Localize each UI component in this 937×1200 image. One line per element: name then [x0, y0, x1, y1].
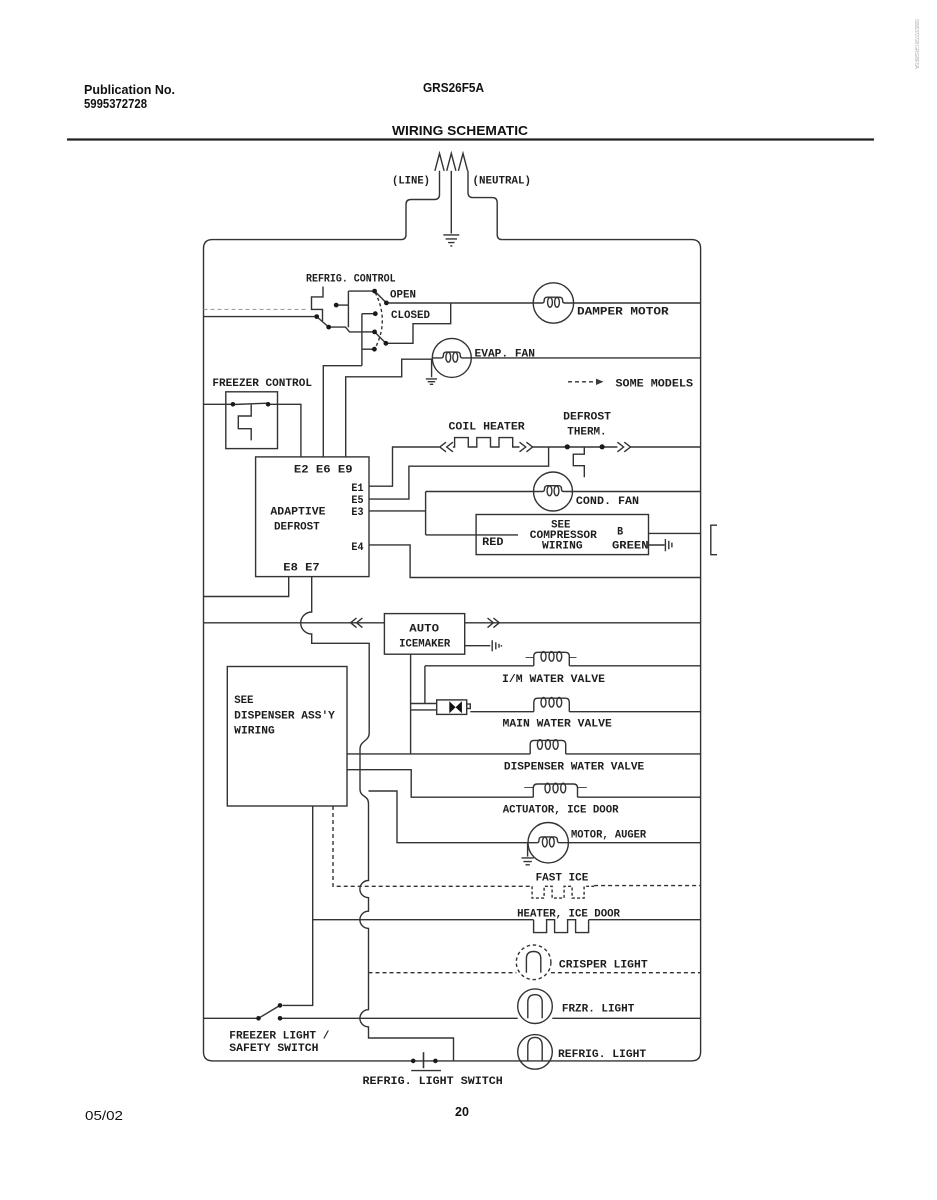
freezer safety switch dot upper — [278, 1003, 283, 1008]
freezer control output to E2 — [268, 404, 301, 457]
refrig control: bottom jog to E6 — [323, 366, 362, 457]
heater ice door line — [313, 919, 534, 921]
refrig control: vertical C/OPEN tie — [347, 291, 349, 327]
svg-text:HEATER, ICE DOOR: HEATER, ICE DOOR — [517, 909, 620, 921]
svg-text:5995372728 GRS26F5A: 5995372728 GRS26F5A — [913, 19, 919, 69]
svg-text:I/M WATER VALVE: I/M WATER VALVE — [502, 674, 605, 686]
crisper dashed line right — [551, 972, 701, 974]
evap fan circle — [432, 338, 471, 377]
heater line to defrost therm — [533, 446, 618, 448]
supply bump left (LINE drop) — [401, 171, 440, 240]
freezer switch riser from dispenser box — [283, 806, 313, 1005]
svg-text:THERM.: THERM. — [567, 427, 606, 439]
refrig control contact I — [372, 347, 377, 352]
wire E4 to bottom compressor run — [369, 545, 701, 578]
svg-text:ACTUATOR, ICE DOOR: ACTUATOR, ICE DOOR — [503, 805, 619, 817]
refrig control: dashed wiper arc — [375, 293, 382, 349]
refrig filament — [528, 1037, 542, 1061]
open contact wire to damper motor — [386, 302, 533, 304]
svg-text:DAMPER MOTOR: DAMPER MOTOR — [577, 307, 669, 319]
svg-text:E1: E1 — [351, 483, 363, 495]
refrig control: wire B to jog — [329, 327, 362, 332]
evap fan coil — [432, 352, 471, 358]
svg-text:CLOSED: CLOSED — [391, 310, 430, 322]
refrig control contact H — [384, 341, 389, 346]
some models legend arrowhead — [596, 379, 604, 385]
motor circles — [432, 283, 573, 511]
svg-text:E5: E5 — [351, 495, 363, 507]
freezer safety switch dot lower right — [278, 1016, 283, 1021]
E3 tie vertical — [425, 492, 427, 535]
refrig control: feed wire from left rail — [204, 316, 315, 318]
coil heater resistor — [453, 438, 520, 447]
wire E5 to heater-therm junction — [369, 447, 549, 499]
svg-text:FREEZER LIGHT /: FREEZER LIGHT / — [229, 1031, 329, 1043]
damper motor coil — [533, 297, 573, 303]
auger ground bars — [522, 858, 534, 865]
neutral arrow — [458, 153, 467, 170]
defrost therm sensor zigzag — [573, 447, 584, 477]
cond fan coil — [534, 486, 573, 492]
icemaker chassis ground bars — [492, 640, 501, 651]
svg-text:DISPENSER WATER VALVE: DISPENSER WATER VALVE — [504, 762, 645, 774]
freezer safety switch dot lower left — [256, 1016, 261, 1021]
fast ice dashed to right rail — [594, 885, 701, 887]
refrig light circle — [518, 1035, 553, 1070]
svg-text:FRZR. LIGHT: FRZR. LIGHT — [562, 1004, 635, 1016]
dispenser line to right rail — [566, 753, 701, 755]
refrig control: top wire to OPEN contact — [348, 290, 374, 292]
heater line to right rail — [631, 446, 701, 448]
chassis ground sideways bars — [665, 539, 672, 551]
evap fan ground bars — [426, 379, 437, 384]
actuator feed from dispenser box — [347, 770, 533, 798]
freezer control feed from left rail — [204, 403, 233, 405]
ground arrow — [447, 153, 456, 170]
main outline box with supply bump — [204, 240, 701, 1061]
svg-text:COND. FAN: COND. FAN — [576, 496, 639, 508]
closed contact riser to damper line — [386, 303, 451, 343]
adaptive defrost board box — [256, 457, 369, 577]
svg-text:20: 20 — [455, 1105, 469, 1119]
actuator coil stubs — [524, 786, 587, 788]
RED wire into compressor box — [426, 534, 518, 536]
dispenser coil loops — [537, 740, 542, 750]
svg-text:(LINE): (LINE) — [392, 176, 430, 188]
svg-text:E4: E4 — [351, 542, 363, 554]
auger motor circle — [528, 823, 568, 863]
svg-text:CRISPER LIGHT: CRISPER LIGHT — [559, 960, 648, 972]
wire E7 descent with hop over icemaker feed — [301, 577, 454, 1061]
coil heater chevron right — [520, 442, 533, 452]
svg-text:ICEMAKER: ICEMAKER — [399, 639, 451, 651]
I/M branch riser — [424, 666, 426, 704]
evap fan output to right rail — [471, 357, 700, 359]
svg-text:GREEN: GREEN — [612, 541, 649, 553]
schematic text labels — [212, 176, 693, 1089]
actuator coil — [533, 784, 577, 797]
svg-text:E8 E7: E8 E7 — [283, 563, 319, 575]
refrig control: blade A-B — [317, 317, 329, 328]
damper line from motor to right rail — [574, 302, 701, 304]
svg-text:E2 E6 E9: E2 E6 E9 — [294, 465, 353, 477]
icemaker chevron right — [488, 618, 500, 628]
refrig light switch dot right — [433, 1059, 438, 1064]
svg-text:GRS26F5A: GRS26F5A — [423, 80, 485, 95]
icemaker ground stub — [465, 645, 491, 647]
defrost therm dot left — [565, 444, 570, 449]
svg-text:REFRIG. LIGHT: REFRIG. LIGHT — [558, 1049, 647, 1061]
svg-text:SAFETY SWITCH: SAFETY SWITCH — [229, 1043, 318, 1055]
svg-text:MAIN WATER VALVE: MAIN WATER VALVE — [503, 719, 613, 731]
svg-text:05/02: 05/02 — [85, 1109, 123, 1123]
fast ice dashed heater — [532, 886, 594, 898]
main coil loops — [541, 698, 546, 708]
crisper light dashed circle — [516, 945, 551, 980]
defrost therm chevron right — [617, 442, 630, 452]
refrig control contact G — [372, 330, 377, 335]
wire E3 — [369, 510, 426, 512]
I/M water valve coil — [534, 652, 570, 666]
refrig control contact E — [384, 301, 389, 306]
actuator coil loops — [545, 783, 550, 793]
refrig control contact A — [314, 314, 319, 319]
svg-text:REFRIG. LIGHT SWITCH: REFRIG. LIGHT SWITCH — [363, 1076, 503, 1088]
icemaker output to right rail — [465, 622, 701, 624]
valve outlet tab — [467, 704, 471, 709]
wire E1 to coil heater line — [369, 447, 439, 486]
refrig control: wire G — [362, 331, 375, 333]
evap fan feed from E9 — [346, 359, 433, 457]
I/M line to right rail — [569, 665, 700, 667]
svg-text:DISPENSER ASS'Y: DISPENSER ASS'Y — [234, 710, 335, 722]
svg-text:FAST ICE: FAST ICE — [536, 873, 589, 885]
svg-text:WIRING: WIRING — [234, 726, 275, 738]
svg-text:COIL HEATER: COIL HEATER — [449, 422, 526, 434]
defrost therm dot right — [600, 444, 605, 449]
valve feed lower — [411, 709, 437, 711]
frzr line to right rail — [552, 1017, 700, 1019]
junction and contact dots — [231, 289, 605, 1063]
svg-text:SEE: SEE — [234, 695, 254, 707]
compressor wiring box — [476, 515, 648, 555]
auger ground stem — [527, 844, 529, 857]
main water valve line left — [470, 711, 534, 713]
dispenser water valve coil — [530, 740, 566, 754]
svg-text:5995372728: 5995372728 — [84, 96, 147, 111]
line arrow — [435, 153, 444, 170]
auger motor feed — [369, 791, 529, 843]
refrig control: wire C — [337, 304, 348, 306]
coil heater chevron left — [440, 442, 453, 452]
freezer control contact left — [231, 402, 236, 407]
svg-text:OPEN: OPEN — [390, 290, 416, 302]
auto icemaker box — [384, 614, 464, 655]
refrig control: wire I — [362, 348, 375, 350]
refrig control: bimetal zigzag — [312, 287, 324, 322]
actuator line to right rail — [578, 796, 701, 798]
I/M coil loops — [541, 652, 546, 662]
freezer control blade — [233, 403, 268, 404]
svg-text:DEFROST: DEFROST — [274, 522, 320, 534]
some models legend dashed — [568, 381, 596, 383]
valve bowtie — [449, 701, 462, 713]
wire E8 to left rail — [204, 577, 289, 597]
freezer light line — [280, 1017, 518, 1019]
freezer light feed from left rail — [204, 1017, 259, 1019]
svg-text:Publication No.: Publication No. — [84, 82, 175, 97]
ground symbol bars — [443, 235, 459, 246]
svg-text:WIRING SCHEMATIC: WIRING SCHEMATIC — [392, 123, 529, 138]
refrig control: CLOSED blade G-H — [375, 332, 386, 343]
supply bump right (NEUTRAL drop) — [468, 171, 502, 240]
icemaker feed from left rail — [204, 622, 385, 624]
refrig control: vertical tie F-I — [361, 314, 363, 366]
auger motor coil — [528, 837, 568, 843]
ground drop wire — [450, 171, 452, 234]
refrig control contact C — [334, 303, 339, 308]
refrig control: dashed some-models feed — [204, 308, 309, 310]
svg-text:MOTOR, AUGER: MOTOR, AUGER — [571, 830, 647, 842]
svg-text:AUTO: AUTO — [409, 624, 439, 636]
dispenser box to fast ice dashed drop — [333, 806, 532, 886]
refrig control contact F — [373, 311, 378, 316]
svg-text:EVAP. FAN: EVAP. FAN — [475, 349, 536, 361]
refrig control contact B — [326, 325, 331, 330]
svg-text:E3: E3 — [351, 507, 363, 519]
GREEN wire to chassis ground — [649, 544, 665, 546]
dispenser assy box — [227, 667, 347, 807]
header rule — [67, 138, 874, 140]
water inlet valve body — [437, 700, 467, 715]
dispenser water valve line left — [347, 753, 530, 755]
svg-text:DEFROST: DEFROST — [563, 412, 611, 424]
cond fan output to right rail — [573, 491, 701, 493]
svg-text:B: B — [617, 527, 623, 539]
cond fan feed — [426, 491, 534, 493]
freezer control contact right — [266, 402, 271, 407]
refrig light switch plunger — [423, 1052, 425, 1068]
refrig control contact D open — [372, 289, 377, 294]
auger line to right rail — [568, 842, 700, 844]
valve feed upper — [411, 703, 437, 705]
frzr light circle — [518, 989, 553, 1024]
icemaker chevron left — [351, 618, 363, 628]
I/M water valve line left — [425, 665, 534, 667]
B wire to right rail — [649, 532, 701, 534]
crisper filament — [526, 952, 540, 973]
heater ice door element — [534, 920, 589, 933]
evap fan ground stem — [431, 359, 433, 377]
svg-text:ADAPTIVE: ADAPTIVE — [270, 507, 326, 519]
damper motor circle — [533, 283, 573, 323]
heater line to right rail — [589, 919, 701, 921]
freezer control bimetal zigzag — [238, 405, 251, 441]
svg-text:SOME MODELS: SOME MODELS — [616, 379, 694, 391]
svg-text:WIRING: WIRING — [542, 541, 583, 553]
svg-text:FREEZER CONTROL: FREEZER CONTROL — [212, 378, 312, 390]
svg-text:(NEUTRAL): (NEUTRAL) — [473, 176, 532, 188]
freezer safety switch blade — [259, 1005, 281, 1018]
off-page bracket — [711, 525, 717, 555]
cond fan circle — [534, 472, 573, 511]
I/M coil stubs — [526, 657, 577, 659]
icemaker down feed to water valve — [410, 654, 412, 754]
freezer control box — [226, 392, 278, 449]
main water valve coil — [534, 698, 570, 712]
refrig light switch dot left — [411, 1059, 416, 1064]
crisper dashed line left — [369, 972, 517, 974]
main line to right rail — [569, 711, 700, 713]
svg-text:RED: RED — [482, 537, 504, 549]
refrig light switch base bar — [411, 1070, 441, 1072]
refrig control: wire F — [362, 313, 375, 315]
refrig control: OPEN blade D-E — [375, 291, 387, 303]
frzr filament — [528, 995, 542, 1019]
svg-text:REFRIG. CONTROL: REFRIG. CONTROL — [306, 274, 396, 286]
